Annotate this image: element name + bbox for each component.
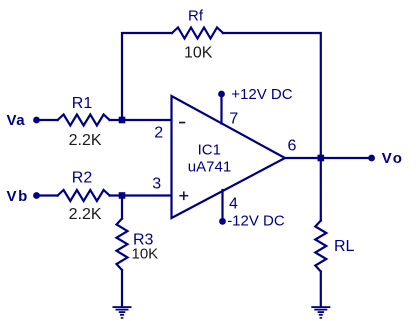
svg-text:7: 7 bbox=[229, 110, 238, 127]
svg-text:R2: R2 bbox=[72, 170, 93, 187]
svg-text:6: 6 bbox=[288, 138, 297, 155]
svg-text:10K: 10K bbox=[184, 45, 213, 62]
svg-text:2.2K: 2.2K bbox=[69, 206, 102, 223]
svg-text:-12V DC: -12V DC bbox=[227, 212, 285, 229]
svg-text:2: 2 bbox=[154, 124, 163, 141]
svg-text:Va: Va bbox=[7, 112, 26, 129]
svg-text:+12V DC: +12V DC bbox=[231, 86, 292, 103]
svg-text:4: 4 bbox=[229, 196, 238, 213]
svg-text:IC1: IC1 bbox=[198, 142, 221, 159]
svg-text:Vb: Vb bbox=[7, 188, 29, 205]
svg-text:uA741: uA741 bbox=[188, 159, 231, 176]
svg-text:RL: RL bbox=[334, 238, 355, 255]
svg-text:3: 3 bbox=[152, 176, 161, 193]
svg-text:Rf: Rf bbox=[188, 8, 204, 25]
svg-text:R1: R1 bbox=[72, 95, 93, 112]
svg-text:Vo: Vo bbox=[382, 150, 404, 167]
svg-text:2.2K: 2.2K bbox=[69, 132, 102, 149]
svg-text:10K: 10K bbox=[132, 246, 159, 263]
